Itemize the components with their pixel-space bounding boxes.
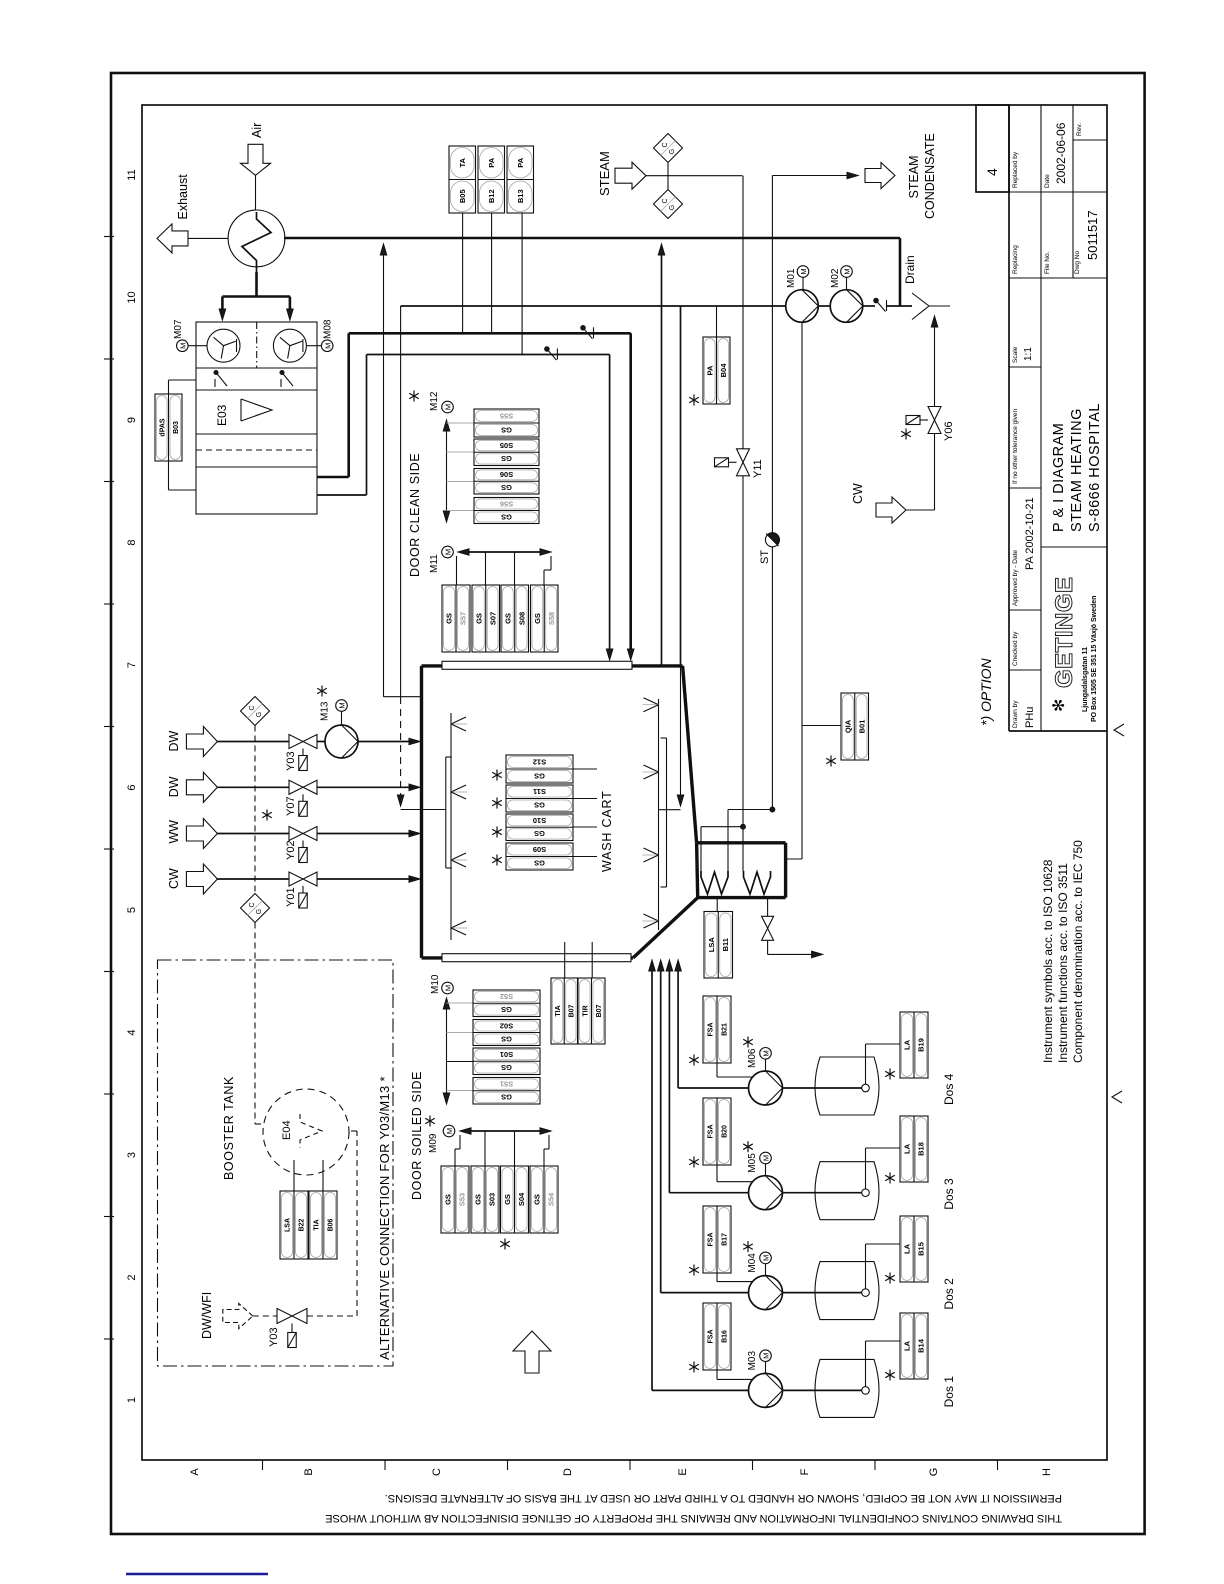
asterisk M04 (743, 1241, 753, 1252)
wire M09 sensor drops (459, 1135, 461, 1149)
wire exchanger to exhaust (188, 237, 228, 239)
asterisk Y06 (901, 429, 911, 440)
door M10 travel arrow (446, 1006, 448, 1096)
instrument GS S07 (472, 585, 500, 652)
svg-text:Dwg No: Dwg No (1074, 250, 1081, 274)
svg-text:ALTERNATIVE CONNECTION FOR Y03: ALTERNATIVE CONNECTION FOR Y03/M13 * (377, 1076, 392, 1360)
svg-text:Instrument symbols acc. to ISO: Instrument symbols acc. to ISO 10628 (1041, 859, 1055, 1063)
svg-text:G: G (928, 1468, 940, 1477)
svg-text:GS: GS (475, 613, 484, 624)
motor M04 (760, 1252, 772, 1264)
inner drawing frame (142, 105, 1107, 1460)
svg-text:QIA: QIA (844, 719, 853, 733)
check valve after M02 (874, 298, 878, 302)
svg-text:Drawn by: Drawn by (1012, 700, 1019, 728)
fold mark lower (1112, 1091, 1122, 1103)
svg-text:B20: B20 (722, 1125, 729, 1138)
pump M04 (749, 1276, 783, 1310)
pump M01 (786, 290, 819, 323)
wire pump M03 to tank (783, 1389, 862, 1391)
svg-text:GS: GS (533, 1194, 542, 1205)
DW inlet arrow (186, 727, 217, 757)
svg-text:G: G (256, 712, 263, 717)
svg-text:LA: LA (903, 1143, 912, 1154)
svg-text:9: 9 (126, 417, 138, 423)
wire DW/WFI dashed (253, 1315, 277, 1317)
asterisk soiled sensors (500, 1239, 510, 1250)
wire level sensor B14 (865, 1341, 867, 1387)
svg-text:STEAM HEATING: STEAM HEATING (1069, 408, 1085, 532)
svg-text:GS: GS (501, 1034, 512, 1043)
svg-text:B06: B06 (328, 1218, 335, 1231)
wire trap to condensate outlet (771, 547, 773, 810)
svg-text:M10: M10 (430, 974, 441, 994)
svg-text:M: M (762, 1255, 771, 1261)
svg-text:GS: GS (534, 829, 545, 838)
motor M11 (442, 546, 454, 558)
svg-text:PO Box 1505 SE 351 15 Växjö Sw: PO Box 1505 SE 351 15 Växjö Sweden (1091, 596, 1098, 722)
svg-text:M: M (762, 1155, 771, 1161)
svg-text:M: M (762, 1050, 771, 1056)
svg-text:Scale: Scale (1012, 346, 1019, 363)
svg-text:Replacing: Replacing (1012, 245, 1019, 274)
svg-text:H: H (1041, 1468, 1053, 1476)
svg-text:M11: M11 (429, 554, 440, 573)
svg-text:S03: S03 (488, 1193, 497, 1206)
motor M07 (177, 340, 189, 352)
wash chamber left wall (420, 666, 423, 958)
svg-text:C: C (249, 902, 256, 907)
svg-text:GS: GS (501, 1063, 512, 1072)
svg-text:M08: M08 (323, 319, 334, 339)
wire TA B05 to air duct (462, 213, 464, 333)
wire LSA B11 stub (716, 898, 718, 912)
svg-text:WW: WW (167, 820, 181, 844)
svg-text:C: C (662, 142, 669, 147)
svg-text:B04: B04 (719, 363, 728, 378)
steam trap ST (771, 176, 773, 534)
heat exchanger E-coil circle (228, 210, 285, 267)
svg-text:TIA: TIA (555, 1005, 562, 1016)
instrument GS S11 (506, 785, 573, 812)
wire air duct A from E03 (317, 476, 349, 479)
wire Y11 to sump heater (742, 476, 744, 871)
wash chamber upper right diagonal (683, 666, 697, 843)
asterisk LA B15 (885, 1273, 895, 1284)
svg-text:✻: ✻ (1051, 699, 1068, 712)
wire pump suction line (401, 305, 786, 307)
svg-text:Y11: Y11 (752, 459, 764, 478)
sump drain valve (767, 898, 769, 917)
svg-text:C: C (249, 705, 256, 710)
wire chamber vent to main (661, 250, 663, 666)
svg-text:M09: M09 (428, 1133, 439, 1153)
asterisk PA B04 (689, 395, 699, 406)
asterisk LA B19 (885, 1069, 895, 1080)
drain tundish (912, 293, 929, 320)
svg-text:M: M (444, 549, 453, 555)
asterisks cart sensors (492, 770, 502, 781)
svg-text:B13: B13 (516, 189, 525, 203)
instrument GS S55 (474, 409, 539, 437)
svg-text:M12: M12 (429, 391, 440, 411)
instrument FSA B17 (703, 1206, 731, 1273)
svg-text:LSA: LSA (707, 937, 716, 953)
svg-text:FSA: FSA (708, 1125, 715, 1139)
revision cell 4 (976, 105, 1009, 192)
svg-text:4: 4 (984, 168, 1000, 176)
svg-text:S08: S08 (517, 612, 526, 625)
asterisk LA B18 (885, 1173, 895, 1184)
heating element left (701, 871, 728, 894)
svg-text:Y01: Y01 (285, 887, 297, 907)
asterisk M05 (743, 1141, 753, 1152)
DW inlet arrow (186, 772, 217, 802)
svg-text:DW/WFI: DW/WFI (200, 1292, 214, 1339)
wire level sensor B15 (865, 1244, 867, 1289)
svg-text:S01: S01 (500, 1050, 513, 1059)
wire tank to instruments (293, 1160, 295, 1191)
svg-text:B15: B15 (917, 1242, 926, 1256)
wire sampling dashed line (254, 726, 256, 894)
valve Y01 (289, 872, 303, 886)
grid column ticks left edge (104, 236, 114, 238)
svg-text:Ljungadalsgatan 11: Ljungadalsgatan 11 (1082, 647, 1089, 712)
svg-text:B14: B14 (917, 1338, 926, 1353)
valve Y06 (928, 407, 941, 421)
wire spray feed left (401, 809, 446, 811)
wire main down to pump line (899, 238, 902, 306)
svg-text:Dos 4: Dos 4 (942, 1073, 956, 1105)
svg-text:STEAM: STEAM (907, 155, 921, 198)
fold mark upper (1114, 724, 1124, 736)
right spray pipe (658, 699, 660, 930)
instrument LA B14 (900, 1313, 928, 1379)
svg-text:8: 8 (126, 539, 138, 545)
instrument dPAS B03 (155, 394, 182, 461)
wash chamber bottom wall (422, 956, 634, 959)
instrument LSA B22 (280, 1191, 308, 1259)
booster tank E04 (263, 1089, 349, 1175)
svg-text:ST: ST (759, 550, 771, 564)
asterisk Y07 (262, 810, 272, 821)
svg-text:*) OPTION: *) OPTION (978, 657, 994, 726)
wire dosing trunk Dos4 (677, 968, 679, 1088)
svg-text:GS: GS (503, 1194, 512, 1205)
wire recirculation dashed (400, 306, 402, 697)
svg-text:Dos 3: Dos 3 (942, 1178, 956, 1210)
sampling diamond lower (241, 894, 270, 923)
grid row ticks bottom edge (262, 1460, 264, 1470)
svg-text:CW: CW (851, 483, 865, 504)
asterisk M09 (425, 1116, 435, 1127)
svg-text:Component denomination acc. to: Component denomination acc. to IEC 750 (1071, 840, 1085, 1063)
svg-text:B03: B03 (173, 421, 180, 434)
air handling unit E03 body (196, 322, 317, 514)
svg-text:S04: S04 (517, 1192, 526, 1206)
DW/WFI arrow dashed (223, 1304, 253, 1329)
svg-text:GS: GS (534, 801, 545, 810)
motor M01 (797, 266, 809, 278)
motor M10 (442, 982, 454, 994)
svg-text:PA: PA (705, 365, 714, 375)
pump M03 (749, 1373, 783, 1407)
svg-text:B16: B16 (722, 1330, 729, 1343)
wire cart sensors stubs (573, 768, 597, 770)
svg-text:GS: GS (501, 512, 512, 521)
sump right wall (784, 843, 787, 898)
instrument GS S12 (506, 755, 573, 783)
wire DW line (217, 741, 289, 743)
svg-text:E: E (677, 1468, 689, 1475)
wire PA B04 to pump line (716, 306, 718, 337)
wire QIA B01 stub (802, 725, 841, 727)
svg-text:FSA: FSA (708, 1330, 715, 1344)
svg-text:P & I DIAGRAM: P & I DIAGRAM (1051, 423, 1067, 532)
svg-text:E04: E04 (281, 1120, 293, 1140)
wire DW1 into chamber (409, 738, 420, 745)
svg-text:If no other tolerance given: If no other tolerance given (1012, 408, 1019, 484)
outer page border (111, 73, 1145, 1534)
wire M12 sensor stubs (447, 422, 475, 424)
svg-text:B: B (303, 1468, 315, 1475)
tank Dos 2 (815, 1262, 879, 1320)
svg-text:M05: M05 (747, 1153, 758, 1173)
svg-text:S11: S11 (533, 787, 546, 796)
sump top wall (697, 841, 786, 844)
svg-text:5011517: 5011517 (1085, 210, 1100, 260)
motor M05 (760, 1152, 772, 1164)
instrument LSA B11 (704, 912, 733, 979)
svg-text:Date: Date (1044, 174, 1051, 188)
instrument QIA B01 (841, 693, 869, 760)
instrument FSA B16 (703, 1303, 731, 1370)
svg-text:S02: S02 (500, 1021, 513, 1030)
svg-text:TA: TA (458, 157, 467, 167)
svg-text:M01: M01 (786, 268, 797, 288)
motor M09 (443, 1125, 455, 1137)
svg-text:Y07: Y07 (285, 796, 297, 816)
svg-text:B22: B22 (299, 1218, 306, 1231)
svg-text:GS: GS (501, 1093, 512, 1102)
wire dPAS B03 taps (169, 379, 197, 381)
wire WW into chamber (409, 830, 420, 837)
pump M13 (325, 725, 358, 758)
svg-text:S05: S05 (500, 441, 513, 450)
svg-text:THIS DRAWING CONTAINS CONFIDEN: THIS DRAWING CONTAINS CONFIDENTIAL INFOR… (325, 1512, 1062, 1524)
instrument TIA TIR probes (564, 942, 566, 978)
sampling diamond upper (241, 697, 270, 726)
left spray pipe (450, 713, 452, 940)
wire chamber to pump suction (680, 306, 682, 666)
valve Y11 (737, 449, 750, 463)
instrument PA B04 (703, 337, 730, 404)
svg-text:PERMISSION IT MAY NOT BE COPIE: PERMISSION IT MAY NOT BE COPIED, SHOWN O… (385, 1492, 1062, 1504)
svg-text:S53: S53 (458, 1193, 467, 1206)
wire CW line (217, 878, 289, 880)
svg-text:B05: B05 (458, 189, 467, 203)
valve Y03 alternative (277, 1309, 292, 1324)
instrument GS S09 (506, 843, 573, 870)
fan M07 (207, 329, 240, 362)
left spray nozzles (451, 717, 466, 724)
svg-text:M06: M06 (747, 1048, 758, 1068)
svg-text:DOOR CLEAN SIDE: DOOR CLEAN SIDE (408, 453, 422, 577)
svg-text:Y03: Y03 (285, 751, 297, 771)
svg-text:7: 7 (126, 662, 138, 668)
svg-text:GS: GS (533, 613, 542, 624)
instrument PA B13 (507, 146, 534, 213)
damper flap right (280, 371, 284, 375)
WW inlet arrow (186, 819, 217, 849)
steam inlet arrow (615, 162, 646, 189)
air inlet arrow (241, 144, 271, 175)
svg-text:Replaced by: Replaced by (1012, 151, 1019, 188)
svg-text:M: M (445, 1128, 454, 1134)
backflow damper duct B (545, 347, 549, 351)
svg-text:M: M (444, 985, 453, 991)
svg-text:S51: S51 (500, 1079, 513, 1088)
svg-text:S52: S52 (500, 992, 513, 1001)
svg-text:Checked by: Checked by (1012, 631, 1019, 666)
svg-text:Drain: Drain (903, 255, 917, 284)
svg-text:B21: B21 (722, 1023, 729, 1036)
svg-text:DW: DW (167, 730, 181, 751)
svg-text:LA: LA (903, 1340, 912, 1351)
wire PA B12 to air duct (491, 213, 493, 333)
wire M10 sensor stubs (447, 1002, 474, 1004)
svg-text:5: 5 (126, 907, 138, 913)
instrument LA B15 (900, 1216, 928, 1282)
wire dosing trunk Dos1 (651, 968, 653, 1390)
svg-text:3: 3 (126, 1152, 138, 1158)
svg-text:Y06: Y06 (943, 421, 955, 441)
svg-text:DW: DW (167, 776, 181, 797)
svg-text:2: 2 (126, 1274, 138, 1280)
wire DW line (217, 786, 289, 788)
wire air to heat exchanger (255, 175, 257, 212)
tank Dos 4 (815, 1057, 879, 1115)
asterisk LA B14 (885, 1370, 895, 1381)
svg-text:File No.: File No. (1044, 251, 1051, 274)
svg-text:Dos 2: Dos 2 (942, 1278, 956, 1310)
svg-text:M13: M13 (320, 701, 331, 721)
svg-text:S-8666 HOSPITAL: S-8666 HOSPITAL (1087, 403, 1103, 532)
asterisk M13 (317, 686, 327, 697)
wire FSA B16 to pump (716, 1370, 718, 1379)
wire level sensor B19 (865, 1044, 867, 1084)
svg-text:TIR: TIR (582, 1005, 589, 1016)
svg-text:B19: B19 (917, 1038, 926, 1052)
wire DW1 segment after valve (317, 741, 325, 743)
svg-text:PA: PA (487, 157, 496, 167)
valve Y03 (289, 735, 303, 749)
svg-text:Approved by - Date: Approved by - Date (1012, 550, 1019, 606)
wire air duct B from E03 (317, 494, 367, 496)
wire sump outlet to pump M01 (786, 858, 802, 860)
right cart rail (666, 738, 668, 887)
svg-text:Air: Air (250, 123, 264, 138)
svg-text:dPAS: dPAS (159, 418, 166, 436)
svg-text:FSA: FSA (708, 1023, 715, 1037)
svg-text:Y03: Y03 (268, 1327, 280, 1347)
fan M08 (273, 329, 306, 362)
instrument TA B05 (449, 146, 476, 213)
svg-text:M: M (338, 702, 347, 708)
instrument GS S04 (501, 1166, 529, 1233)
wire FSA B21 to pump (716, 1063, 718, 1077)
wire CW segment after valve (317, 878, 413, 880)
svg-text:S09: S09 (533, 845, 546, 854)
motor M13 (336, 700, 348, 712)
instrument GS S56 (474, 498, 539, 524)
svg-text:G: G (256, 909, 263, 914)
wire condensate outlet header (772, 175, 850, 177)
svg-text:GETINGE: GETINGE (1051, 576, 1078, 688)
left cart rail (445, 757, 447, 868)
instrument GS S05 (474, 439, 539, 466)
door M11 travel arrow (465, 551, 543, 553)
asterisk M06 (743, 1037, 753, 1048)
asterisk FSA B17 (689, 1265, 699, 1276)
instrument LA B18 (900, 1116, 928, 1182)
motor M03 (760, 1350, 772, 1362)
sump bottom wall (698, 896, 786, 899)
instrument TIR B07 (578, 978, 605, 1044)
svg-text:S06: S06 (500, 470, 513, 479)
instrument PA B12 (478, 146, 505, 213)
instrument GS S06 (474, 469, 539, 495)
instrument GS S01 (473, 1048, 540, 1075)
svg-text:M: M (444, 404, 453, 410)
svg-text:M03: M03 (747, 1351, 758, 1371)
wire pump M05 to tank (783, 1192, 862, 1194)
svg-text:WASH CART: WASH CART (600, 790, 614, 872)
svg-text:M07: M07 (173, 319, 184, 339)
svg-text:B01: B01 (857, 720, 866, 734)
svg-text:S07: S07 (488, 612, 497, 625)
svg-text:B17: B17 (722, 1233, 729, 1246)
asterisk QIA B01 (826, 756, 836, 767)
svg-text:11: 11 (126, 169, 138, 180)
damper flap left (214, 371, 218, 375)
svg-text:B07: B07 (568, 1004, 575, 1017)
blue underline mark (126, 1573, 268, 1575)
svg-text:M02: M02 (830, 268, 841, 288)
svg-text:GS: GS (534, 771, 545, 780)
svg-text:GS: GS (501, 1005, 512, 1014)
wire M11 sensor drops (456, 556, 458, 585)
svg-text:PA 2002-10-21: PA 2002-10-21 (1024, 497, 1036, 570)
door M09 travel arrow (467, 1130, 543, 1132)
svg-text:S57: S57 (459, 612, 468, 625)
svg-text:GS: GS (474, 1194, 483, 1205)
wire level sensor B18 (865, 1148, 867, 1189)
wash chamber lower right diagonal (633, 898, 698, 958)
svg-text:GS: GS (501, 483, 512, 492)
wire CW into chamber (409, 876, 420, 883)
instrument GS S10 (506, 814, 573, 841)
svg-text:PHu: PHu (1024, 707, 1036, 728)
svg-text:C: C (431, 1468, 443, 1476)
instrument FSA B21 (703, 996, 731, 1063)
svg-text:FSA: FSA (708, 1233, 715, 1247)
sump left wall (697, 843, 698, 898)
instrument GS S03 (471, 1166, 499, 1233)
svg-text:E03: E03 (215, 404, 229, 426)
wire spray feed right (680, 666, 682, 798)
svg-text:B11: B11 (721, 938, 730, 951)
